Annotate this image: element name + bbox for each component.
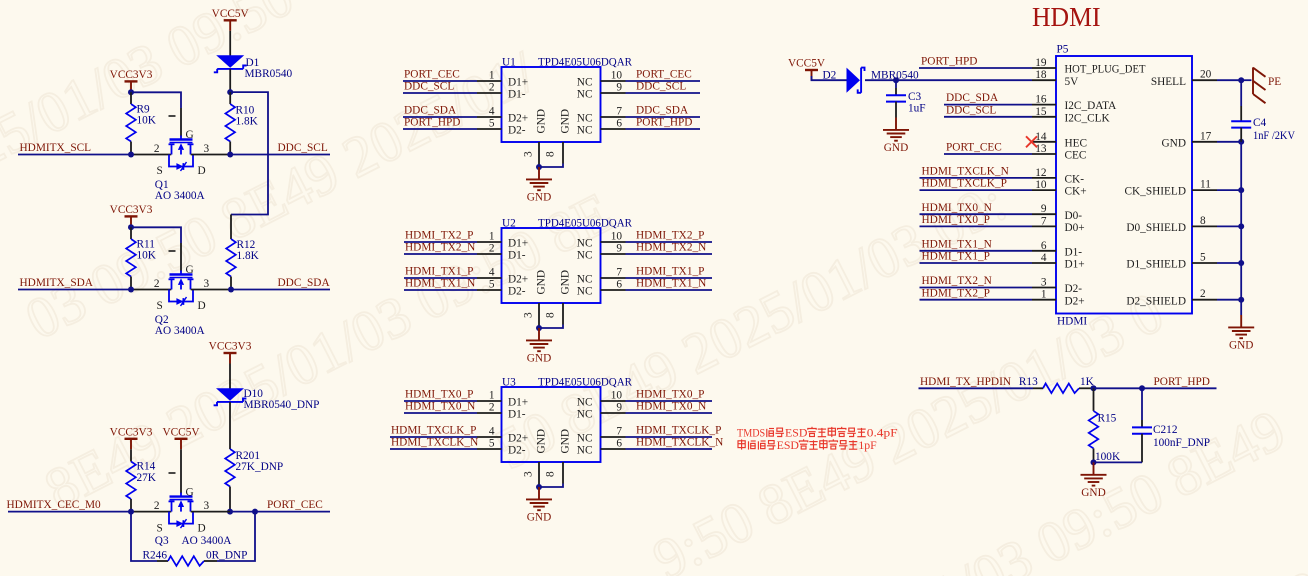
wire HDMI_TX1_P (P5) [920, 262, 1033, 264]
svg-text:I2C_CLK: I2C_CLK [1065, 112, 1111, 124]
capacitor C3 [895, 80, 897, 88]
svg-text:HDMI: HDMI [1057, 316, 1087, 328]
diode D2 [847, 68, 865, 93]
power VCC3V3 (D10) [224, 353, 237, 364]
svg-text:C212: C212 [1153, 424, 1178, 436]
svg-text:13: 13 [1035, 143, 1047, 155]
svg-text:GND: GND [536, 270, 548, 294]
diode D1 [214, 55, 247, 72]
wire HDMITX_SDA [18, 289, 131, 291]
wire gate feed Q2 [131, 227, 181, 243]
junction shield bus 20 [1238, 77, 1244, 83]
wire pin 2 to shield bus [1217, 299, 1241, 301]
svg-text:HDMITX_SDA: HDMITX_SDA [20, 277, 94, 289]
svg-text:D1+: D1+ [508, 237, 528, 249]
wire HDMI_TXCLK_P (U3 right) [626, 436, 713, 438]
svg-text:U3: U3 [502, 377, 516, 389]
svg-text:GND: GND [527, 353, 551, 365]
svg-text:ESD: ESD [777, 440, 799, 452]
svg-text:D0-: D0- [1065, 210, 1083, 222]
svg-text:0.4pF: 0.4pF [867, 428, 898, 440]
svg-text:HDMI_TXCLK_P: HDMI_TXCLK_P [922, 178, 1007, 190]
svg-text:HDMI_TX2_P: HDMI_TX2_P [922, 287, 990, 299]
pin 14 HEC (P5) [1032, 141, 1056, 143]
svg-text:20: 20 [1200, 69, 1212, 81]
ESD IC U1 [502, 67, 601, 142]
wire bypass loop right [204, 560, 217, 562]
wire PORT_CEC (U1 left) [403, 80, 477, 82]
svg-text:D2+: D2+ [508, 112, 528, 124]
svg-text:R201: R201 [236, 450, 260, 462]
svg-text:S: S [157, 165, 163, 177]
svg-text:2: 2 [154, 500, 160, 512]
transistor Q2 [169, 271, 194, 307]
wire HDMITX_SCL [18, 154, 131, 156]
svg-text:D2+: D2+ [1065, 295, 1085, 307]
wire 5V to pin 18 [865, 79, 1032, 81]
svg-text:PORT_CEC: PORT_CEC [946, 142, 1002, 154]
svg-text:P5: P5 [1057, 44, 1069, 56]
svg-text:2: 2 [1200, 288, 1206, 300]
wire C212 to R15 bottom [1094, 461, 1143, 463]
junction bypass right [252, 509, 258, 515]
svg-text:17: 17 [1200, 130, 1212, 142]
ground C3 [883, 118, 909, 141]
svg-text:8: 8 [545, 151, 557, 157]
resistor R9 [130, 92, 132, 104]
svg-text:HDMI_TXCLK_P: HDMI_TXCLK_P [391, 424, 476, 436]
power VCC5V (D1) [224, 20, 237, 31]
junction shield bus 11 [1238, 187, 1244, 193]
svg-text:6: 6 [616, 118, 622, 130]
svg-text:NC: NC [577, 88, 593, 100]
pin 10 (U2 right) [601, 241, 626, 243]
svg-text:2: 2 [489, 402, 495, 414]
svg-text:19: 19 [1035, 57, 1047, 69]
pin 8 (U1 bottom) [562, 142, 564, 164]
pin 6 D1- (P5) [1032, 250, 1056, 252]
resistor R246 [168, 556, 204, 566]
wire HDMI_TXCLK_N (U3 right) [626, 448, 713, 450]
resistor R13 [1043, 384, 1079, 394]
svg-text:GND: GND [536, 109, 548, 133]
svg-text:27K_DNP: 27K_DNP [236, 461, 284, 473]
resistor R10 [229, 92, 231, 104]
svg-text:15: 15 [1035, 106, 1047, 118]
wire HDMI_TX1_P (U2 right) [626, 277, 713, 279]
svg-text:1nF /2KV: 1nF /2KV [1253, 130, 1296, 142]
svg-text:D2-: D2- [508, 444, 526, 456]
pin 11 CK_SHIELD (P5 right) [1192, 189, 1217, 191]
pin 1 (U2 left) [477, 241, 502, 243]
svg-text:D0+: D0+ [1065, 222, 1085, 234]
wire PORT_CEC [191, 511, 230, 513]
svg-text:HDMITX_CEC_M0: HDMITX_CEC_M0 [7, 499, 101, 511]
wire HDMI_TX0_N (U3 left) [404, 412, 477, 414]
wire PORT_HPD (P5) [919, 67, 1032, 69]
wire DDC_SCL (U1 right) [626, 92, 701, 94]
svg-text:HDMI_TX_HPDIN: HDMI_TX_HPDIN [920, 376, 1011, 388]
svg-text:3: 3 [204, 143, 210, 155]
pin 17 GND (P5 right) [1192, 141, 1217, 143]
svg-text:100K: 100K [1095, 451, 1121, 463]
svg-text:9: 9 [1041, 203, 1047, 215]
capacitor C212 [1141, 388, 1143, 420]
svg-text:D: D [198, 165, 206, 177]
wire pin 11 to shield bus [1217, 189, 1241, 191]
pin 8 D0_SHIELD (P5 right) [1192, 225, 1217, 227]
pin 9 (U2 right) [601, 253, 626, 255]
note TMDS ESD capacitance line 2 [738, 439, 745, 449]
svg-text:DDC_SCL: DDC_SCL [636, 80, 686, 92]
junction shield bus 2 [1238, 297, 1244, 303]
no-connect X pin 14 [1026, 136, 1037, 147]
svg-text:AO 3400A: AO 3400A [155, 325, 206, 337]
svg-text:HDMI_TX1_P: HDMI_TX1_P [922, 251, 990, 263]
junction R14 bottom [128, 509, 134, 515]
svg-text:1pF: 1pF [858, 440, 876, 452]
svg-text:3: 3 [204, 278, 210, 290]
svg-text:D10: D10 [244, 388, 264, 400]
svg-text:DDC_SCL: DDC_SCL [946, 104, 996, 116]
svg-text:10K: 10K [137, 115, 157, 127]
pin 5 (U3 left) [477, 448, 502, 450]
svg-text:D1+: D1+ [508, 76, 528, 88]
svg-text:GND: GND [560, 109, 572, 133]
svg-text:DDC_SDA: DDC_SDA [636, 104, 689, 116]
svg-text:D1-: D1- [508, 88, 526, 100]
svg-text:PORT_HPD: PORT_HPD [636, 116, 692, 128]
svg-text:HDMI_TX0_P: HDMI_TX0_P [405, 388, 473, 400]
svg-text:27K: 27K [137, 472, 157, 484]
svg-text:5: 5 [489, 279, 495, 291]
svg-text:HEC: HEC [1065, 137, 1088, 149]
svg-text:HDMI_TX2_P: HDMI_TX2_P [405, 229, 473, 241]
pin 9 (U1 right) [601, 92, 626, 94]
pin 12 CK- (P5) [1032, 177, 1056, 179]
resistor R15 [1093, 388, 1095, 411]
svg-text:TPD4E05U06DQAR: TPD4E05U06DQAR [538, 57, 632, 69]
svg-text:9: 9 [616, 243, 622, 255]
svg-text:D2_SHIELD: D2_SHIELD [1126, 295, 1186, 307]
svg-text:HDMI_TX1_N: HDMI_TX1_N [636, 277, 706, 289]
svg-text:1: 1 [489, 231, 495, 243]
svg-text:U2: U2 [502, 218, 516, 230]
svg-text:R13: R13 [1019, 376, 1038, 388]
svg-text:D1_SHIELD: D1_SHIELD [1126, 259, 1186, 271]
svg-text:MBR0540: MBR0540 [245, 68, 293, 80]
svg-text:Q3: Q3 [155, 535, 169, 547]
ground R15 [1081, 462, 1107, 485]
junction R10 bottom [227, 152, 233, 158]
svg-text:D2-: D2- [1065, 283, 1083, 295]
diode D10 [214, 388, 247, 405]
wire PORT_CEC (P5) [944, 153, 1032, 155]
power VCC3V3 (R11) [125, 216, 138, 227]
svg-text:1.8K: 1.8K [236, 115, 259, 127]
junction R9 bottom [128, 152, 134, 158]
pin 4 D1+ (P5) [1032, 262, 1056, 264]
svg-text:9: 9 [616, 402, 622, 414]
pin 9 (U3 right) [601, 412, 626, 414]
resistor R12 [230, 215, 232, 240]
svg-text:8: 8 [1200, 215, 1206, 227]
svg-text:18: 18 [1035, 69, 1047, 81]
pin 1 D2+ (P5) [1032, 299, 1056, 301]
svg-text:10: 10 [611, 390, 623, 402]
pin 1 (U3 left) [477, 400, 502, 402]
power VCC5V (D2) [805, 70, 818, 81]
svg-text:3: 3 [1041, 277, 1047, 289]
junction R11 bottom [128, 287, 134, 293]
pin 2 D2_SHIELD (P5 right) [1192, 299, 1217, 301]
svg-text:1: 1 [1041, 289, 1047, 301]
svg-text:10K: 10K [137, 250, 157, 262]
pin 1 mark Q2 [169, 250, 176, 252]
svg-text:ESD: ESD [785, 428, 807, 440]
wire HDMI_TXCLK_N (P5) [920, 177, 1033, 179]
svg-text:100nF_DNP: 100nF_DNP [1153, 437, 1210, 449]
svg-text:HDMI_TX2_N: HDMI_TX2_N [636, 241, 706, 253]
junction U3 gnd [536, 484, 542, 490]
svg-text:GND: GND [1081, 487, 1105, 499]
wire VCC3V3 to D10 [229, 364, 231, 389]
svg-text:4: 4 [489, 106, 495, 118]
svg-text:7: 7 [616, 426, 622, 438]
svg-text:D1: D1 [246, 57, 260, 69]
capacitor C4 [1240, 106, 1242, 121]
svg-text:NC: NC [577, 396, 593, 408]
pin 5 (U1 left) [477, 128, 502, 130]
svg-text:D1-: D1- [1065, 246, 1083, 258]
svg-text:2: 2 [154, 278, 160, 290]
ground U1 [526, 167, 552, 190]
svg-text:VCC3V3: VCC3V3 [209, 341, 252, 353]
svg-text:8: 8 [545, 471, 557, 477]
wire HDMI_TXCLK_N (U3 left) [390, 448, 477, 450]
svg-text:PORT_CEC: PORT_CEC [267, 499, 323, 511]
svg-text:HDMI: HDMI [1032, 2, 1101, 32]
junction shield bus 8 [1238, 223, 1244, 229]
wire gate feed Q1 [131, 92, 181, 108]
svg-text:NC: NC [577, 432, 593, 444]
pin 20 SHELL (P5 right) [1192, 79, 1217, 81]
wire HDMI_TX0_P (U3 right) [626, 400, 713, 402]
wire HDMI_TX1_P (U2 left) [404, 277, 477, 279]
svg-text:PE: PE [1268, 76, 1281, 88]
wire HDMI_TX1_N (U2 left) [404, 289, 477, 291]
svg-text:R14: R14 [137, 461, 156, 473]
svg-text:NC: NC [577, 273, 593, 285]
svg-text:CK-: CK- [1065, 174, 1085, 186]
svg-text:R15: R15 [1098, 413, 1117, 425]
resistor R11 [130, 227, 132, 239]
svg-text:HDMI_TXCLK_P: HDMI_TXCLK_P [636, 424, 721, 436]
svg-text:0R_DNP: 0R_DNP [206, 550, 247, 562]
svg-text:5V: 5V [1065, 76, 1080, 88]
pin 2 (U1 left) [477, 92, 502, 94]
svg-text:NC: NC [577, 249, 593, 261]
junction R12 bottom [228, 287, 234, 293]
wire HDMI_TX0_P (U3 left) [404, 400, 477, 402]
pin 4 (U1 left) [477, 116, 502, 118]
pin 10 (U1 right) [601, 80, 626, 82]
wire bypass loop left [131, 512, 157, 561]
svg-text:C4: C4 [1253, 117, 1267, 129]
svg-text:DDC_SCL: DDC_SCL [278, 142, 328, 154]
junction R15 top [1091, 385, 1097, 391]
svg-text:D2-: D2- [508, 285, 526, 297]
svg-text:D2+: D2+ [508, 432, 528, 444]
power VCC5V (Q3 gate) [175, 439, 188, 450]
svg-text:8: 8 [545, 312, 557, 318]
svg-text:1.8K: 1.8K [237, 250, 260, 262]
resistor R14 [130, 449, 132, 461]
svg-text:3: 3 [523, 471, 535, 477]
pin 15 I2C_CLK (P5) [1032, 116, 1056, 118]
svg-text:VCC3V3: VCC3V3 [110, 69, 153, 81]
wire VCC5V to D2 [812, 76, 847, 80]
svg-text:GND: GND [560, 270, 572, 294]
ESD IC U2 [502, 228, 601, 303]
pin 3 (U1 bottom) [538, 142, 540, 167]
svg-text:GND: GND [1162, 137, 1186, 149]
junction R15 bottom [1091, 459, 1097, 465]
svg-text:DDC_SCL: DDC_SCL [404, 80, 454, 92]
svg-text:NC: NC [577, 124, 593, 136]
svg-text:HDMI_TX1_P: HDMI_TX1_P [636, 265, 704, 277]
junction D1/R10/rail [227, 89, 233, 95]
pin 6 (U3 right) [601, 448, 626, 450]
pin 4 (U3 left) [477, 436, 502, 438]
wire HDMI_TX2_P (P5) [920, 299, 1033, 301]
svg-text:U1: U1 [502, 57, 516, 69]
svg-text:VCC5V: VCC5V [212, 8, 250, 20]
svg-text:1uF: 1uF [908, 102, 926, 114]
svg-text:VCC3V3: VCC3V3 [110, 427, 153, 439]
svg-text:6: 6 [616, 279, 622, 291]
power VCC3V3 (R9) [125, 81, 138, 92]
svg-text:12: 12 [1035, 167, 1047, 179]
svg-text:VCC5V: VCC5V [162, 427, 200, 439]
junction shield bus 5 [1238, 260, 1244, 266]
pin 5 D1_SHIELD (P5 right) [1192, 262, 1217, 264]
wire DDC_SDA [191, 289, 231, 291]
svg-text:10: 10 [611, 231, 623, 243]
svg-text:D1-: D1- [508, 408, 526, 420]
svg-text:HDMI_TX0_N: HDMI_TX0_N [922, 202, 992, 214]
svg-text:GND: GND [560, 429, 572, 453]
wire VCC5V to Q3 gate [180, 449, 182, 493]
junction U2 gnd [536, 325, 542, 331]
svg-text:D1+: D1+ [1065, 259, 1085, 271]
wire pin 17 to shield bus [1217, 141, 1241, 143]
wire HDMI_TX1_N (P5) [920, 250, 1033, 252]
wire PORT_HPD (U1 left) [403, 128, 477, 130]
svg-text:D2-: D2- [508, 124, 526, 136]
junction U1 gnd [536, 164, 542, 170]
svg-text:HDMI_TXCLK_N: HDMI_TXCLK_N [636, 436, 723, 448]
svg-text:NC: NC [577, 444, 593, 456]
svg-text:3: 3 [204, 500, 210, 512]
svg-text:HDMI_TX1_P: HDMI_TX1_P [405, 265, 473, 277]
svg-text:PORT_CEC: PORT_CEC [636, 68, 692, 80]
svg-text:R246: R246 [143, 550, 168, 562]
wire D1 to node [229, 69, 231, 92]
wire DDC_SDA (U1 left) [403, 116, 477, 118]
svg-text:DDC_SDA: DDC_SDA [278, 277, 331, 289]
svg-text:2: 2 [489, 243, 495, 255]
junction C3 top [893, 77, 899, 83]
svg-text:TPD4E05U06DQAR: TPD4E05U06DQAR [538, 218, 632, 230]
HDMI connector P5 [1056, 56, 1192, 314]
svg-text:AO 3400A: AO 3400A [182, 535, 233, 547]
pin 18 5V (P5) [1032, 79, 1056, 81]
svg-text:G: G [186, 486, 194, 498]
svg-text:9: 9 [616, 82, 622, 94]
svg-text:G: G [186, 264, 194, 276]
pin 19 HOT_PLUG_DET (P5) [1032, 67, 1056, 69]
pin 7 (U3 right) [601, 436, 626, 438]
pin 8 (U3 bottom) [562, 462, 564, 484]
wire HDMI_TXCLK_P (U3 left) [390, 436, 477, 438]
pin 6 (U2 right) [601, 289, 626, 291]
svg-text:PORT_HPD: PORT_HPD [404, 116, 460, 128]
svg-text:S: S [157, 522, 163, 534]
svg-text:GND: GND [527, 512, 551, 524]
svg-text:D2: D2 [823, 69, 837, 81]
wire DDC_SCL (U1 left) [403, 92, 477, 94]
svg-text:GND: GND [527, 192, 551, 204]
svg-text:PORT_HPD: PORT_HPD [921, 56, 977, 68]
transistor Q3 [169, 493, 194, 528]
svg-text:NC: NC [577, 112, 593, 124]
wire HDMI_TX2_P (U2 left) [404, 241, 477, 243]
svg-text:4: 4 [1041, 252, 1047, 264]
svg-text:HDMI_TXCLK_N: HDMI_TXCLK_N [391, 436, 478, 448]
svg-text:DDC_SDA: DDC_SDA [404, 104, 457, 116]
svg-text:D1+: D1+ [508, 396, 528, 408]
svg-text:HDMI_TX2_P: HDMI_TX2_P [636, 229, 704, 241]
wire R13 to PORT_HPD [1079, 387, 1094, 389]
svg-text:7: 7 [1041, 215, 1047, 227]
svg-text:HDMI_TX2_N: HDMI_TX2_N [922, 275, 992, 287]
svg-text:1: 1 [489, 70, 495, 82]
wire pin 5 to shield bus [1217, 262, 1241, 264]
pin 13 CEC (P5) [1032, 153, 1056, 155]
svg-text:HDMITX_SCL: HDMITX_SCL [20, 142, 92, 154]
pin 6 (U1 right) [601, 128, 626, 130]
svg-text:6: 6 [616, 438, 622, 450]
wire pin 20 to shield bus [1217, 79, 1241, 81]
wire PORT_CEC (U1 right) [626, 80, 701, 82]
svg-text:VCC3V3: VCC3V3 [110, 204, 153, 216]
svg-text:1: 1 [489, 390, 495, 402]
svg-text:DDC_SDA: DDC_SDA [946, 92, 999, 104]
pin 2 (U2 left) [477, 253, 502, 255]
wire DDC 5V rail [230, 92, 268, 214]
svg-text:CEC: CEC [1065, 150, 1087, 162]
pin 5 (U2 left) [477, 289, 502, 291]
pin 10 (U3 right) [601, 400, 626, 402]
pin 1 mark Q1 [169, 115, 176, 117]
wire HDMI_TX1_N (U2 right) [626, 289, 713, 291]
power VCC3V3 (R14) [125, 439, 138, 450]
junction R11 top [128, 224, 134, 230]
junction R201 bottom [227, 509, 233, 515]
pin 9 D0- (P5) [1032, 213, 1056, 215]
wire VCC5V to D1 [229, 31, 231, 56]
